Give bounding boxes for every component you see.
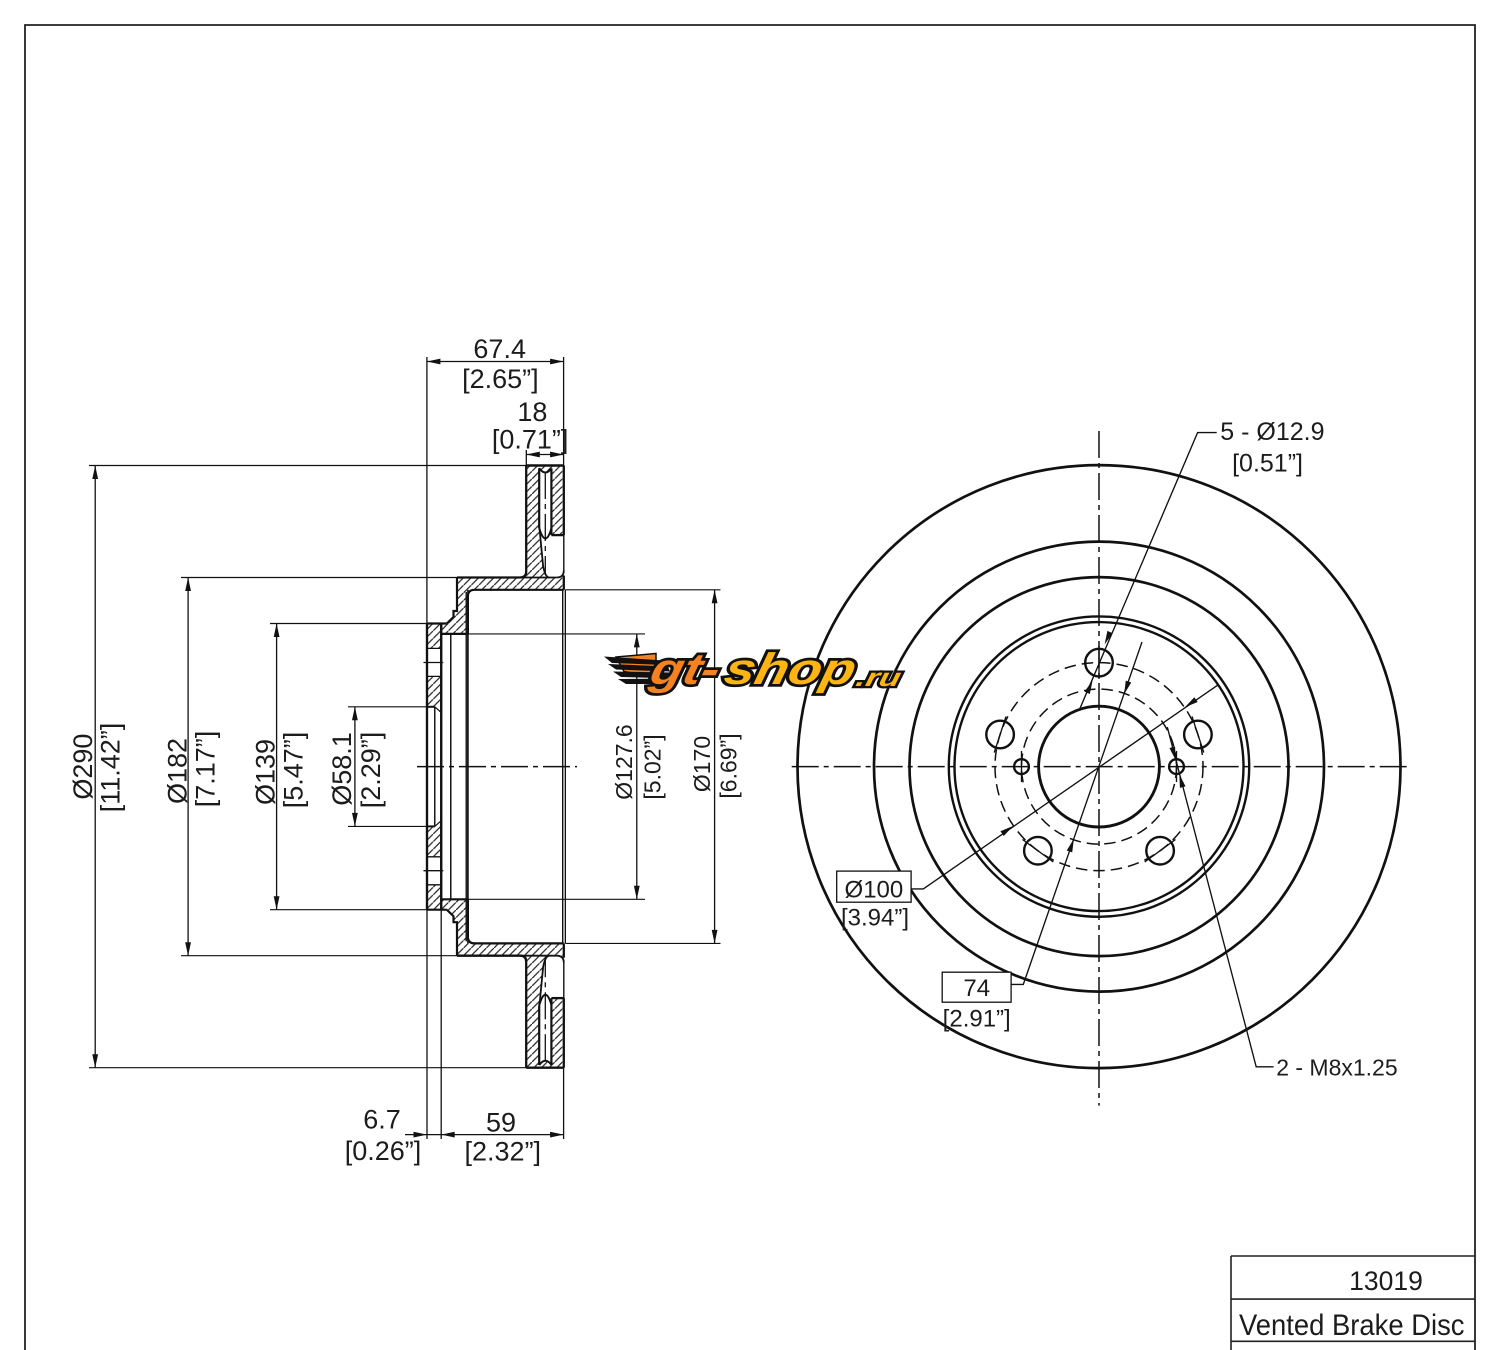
svg-text:Vented Brake Disc: Vented Brake Disc [1239,1309,1465,1342]
dimension line 6.7 [405,1134,441,1136]
arrow Ø12.9 lower [1084,679,1095,694]
extension line 6.7 right [440,910,442,1139]
arrows of section dimensions [92,359,717,1138]
arrow 18 right [550,452,564,458]
svg-text:59: 59 [486,1108,516,1138]
groove circle [874,542,1324,992]
bolt hole upper right [1184,721,1212,749]
svg-text:shop: shop [720,646,861,694]
svg-text:[2.91”]: [2.91”] [943,1006,1011,1033]
svg-text:[11.42”]: [11.42”] [96,723,126,813]
arrow Ø74 lower left [1067,838,1077,853]
arrow M8 upper [1169,747,1178,762]
dimension line 74 diagonal [1011,642,1142,984]
hub bore circle Ø58.1 [1039,706,1160,827]
arrow 18 left [526,452,540,458]
svg-text:[0.51”]: [0.51”] [1232,450,1303,478]
extension line 67.4/18 right [563,357,565,466]
extension line 18 left [525,450,527,466]
svg-text:Ø127.6: Ø127.6 [611,724,637,799]
svg-text:13019: 13019 [1349,1266,1423,1296]
arrow 59/6.7 shared [441,1132,455,1138]
svg-text:gt-: gt- [645,646,725,694]
svg-text:Ø182: Ø182 [162,738,192,804]
arrow M8 lower [1176,773,1185,788]
arrow 6.7 left [414,1132,428,1138]
svg-text:[2.65”]: [2.65”] [462,364,539,394]
center mark upper right bolt hole [1192,716,1204,752]
svg-text:[7.17”]: [7.17”] [190,731,220,808]
dimension line 59 [441,1134,563,1136]
dimension line 18 [526,454,563,456]
arrow Ø58.1 top [352,707,358,721]
svg-text:[3.94”]: [3.94”] [841,905,909,932]
svg-text:67.4: 67.4 [473,334,526,364]
arrow Ø100 upper right [1183,697,1197,709]
arrow 67.4 right [550,359,564,365]
svg-text:[0.26”]: [0.26”] [345,1136,422,1166]
center mark top bolt hole [1098,646,1100,679]
label box 74 [942,972,1011,1002]
section axis centerline [417,766,577,768]
arrow 59 right [550,1132,564,1138]
circle Ø74 dashed [1022,689,1177,844]
dimension line Ø58.1 [354,707,356,827]
bolt circle Ø100 dashed [995,663,1203,871]
center mark lower right bolt hole [1145,840,1176,862]
center mark M8 right [1176,751,1178,782]
leader 2-M8x1.25 [1167,727,1273,1067]
dimension line Ø182 [187,578,189,956]
label box Ø100 [837,871,911,902]
front view vertical centerline [1098,431,1100,1106]
svg-text:[2.29”]: [2.29”] [356,732,386,809]
center mark M8 left [1021,751,1023,782]
step circle outer [949,616,1249,916]
svg-text:Ø58.1: Ø58.1 [327,732,357,806]
center mark lower left bolt hole [1023,840,1054,862]
center mark upper left bolt hole [994,716,1006,752]
svg-text:18: 18 [517,397,547,427]
bolt hole lower left [1024,837,1052,865]
svg-text:Ø170: Ø170 [689,736,715,792]
dimension line Ø127.6 [636,634,638,899]
svg-text:5 - Ø12.9: 5 - Ø12.9 [1220,418,1324,446]
dimension line Ø139 [276,624,278,910]
arrow Ø58.1 bottom [352,813,358,827]
svg-text:Ø139: Ø139 [250,739,280,805]
arrows of front view [1000,631,1197,853]
title block [1231,1256,1475,1350]
svg-text:[2.32”]: [2.32”] [465,1137,542,1167]
svg-text:[6.69”]: [6.69”] [715,733,741,798]
svg-text:2 - M8x1.25: 2 - M8x1.25 [1276,1054,1397,1080]
outer circle Ø290 [798,465,1401,1068]
arrow Ø100 lower left [1000,824,1014,836]
gt-shop.ru watermark logo [604,646,909,694]
bolt hole upper left [986,721,1014,749]
arrow Ø74 upper right [1121,681,1131,696]
svg-text:[5.47”]: [5.47”] [278,732,308,809]
front view horizontal centerline [792,766,1411,768]
extension line 59 right [563,1068,565,1139]
hat circle Ø182 [910,577,1289,956]
dimension line Ø100 diagonal [911,685,1218,889]
M8 hole right [1169,759,1184,774]
extension line 6.7 left [426,910,428,1139]
arrow Ø139 bottom [274,896,280,910]
bolt hole lower right [1146,837,1174,865]
svg-text:[0.71”]: [0.71”] [492,425,569,455]
arrow Ø12.9 upper [1102,631,1113,646]
arrow Ø170 bottom [712,930,718,944]
arrow Ø290 bottom [92,1054,98,1068]
arrow 67.4 left [427,359,441,365]
svg-text:[5.02”]: [5.02”] [639,734,665,799]
arrow Ø182 top [185,578,191,592]
arrow Ø170 top [712,590,718,604]
arrow Ø127.6 top [634,634,640,648]
svg-text:Ø100: Ø100 [845,877,904,904]
svg-text:Ø290: Ø290 [68,734,98,800]
arrow Ø139 top [274,624,280,638]
M8 hole left [1014,759,1029,774]
bolt hole top [1085,649,1113,677]
dimension line Ø170 [714,590,716,944]
leader 5-Ø12.9 [1080,433,1217,710]
svg-text:6.7: 6.7 [363,1105,401,1135]
arrow Ø182 bottom [185,942,191,956]
dimension line Ø290 [94,466,96,1068]
arrow Ø127.6 bottom [634,886,640,900]
svg-text:74: 74 [963,975,990,1002]
step circle inner [955,622,1244,911]
svg-text:.ru: .ru [853,664,904,692]
extension line 67.4 left [426,357,428,624]
dimension line 67.4 [427,361,564,363]
arrow Ø290 top [92,466,98,480]
